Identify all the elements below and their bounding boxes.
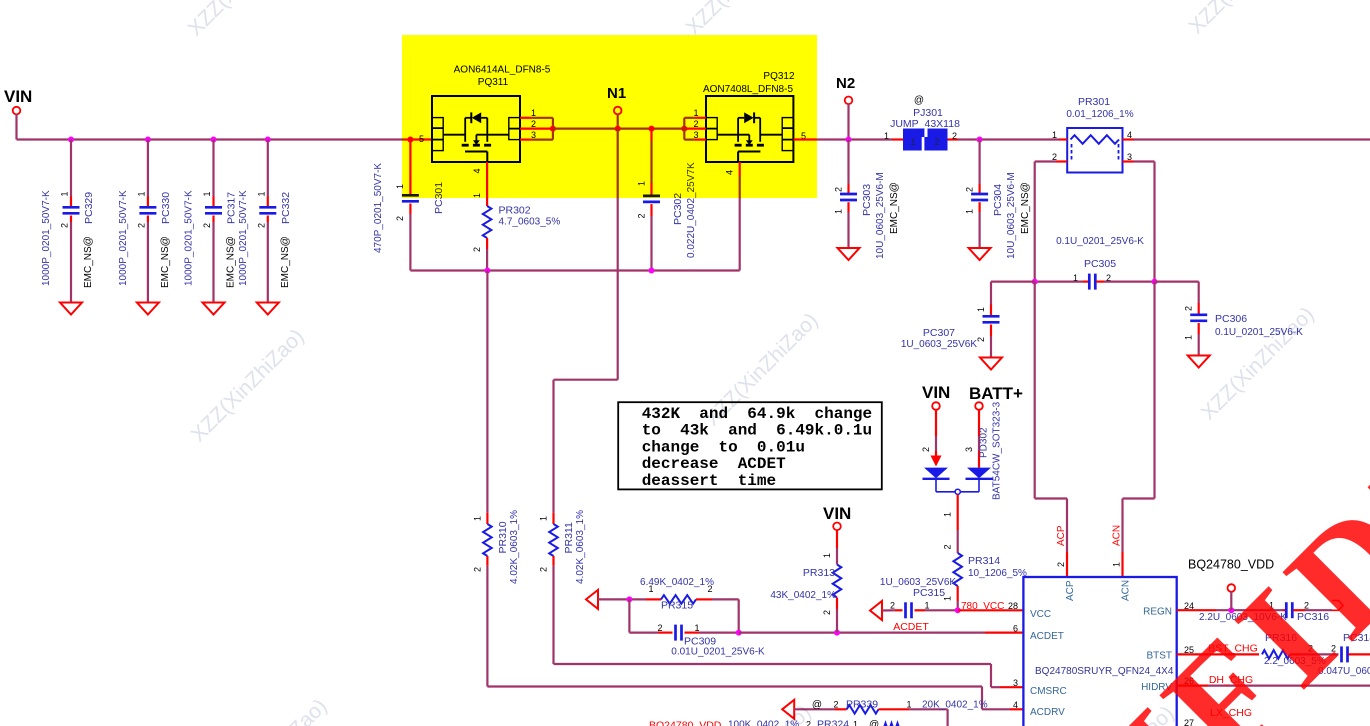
svg-text:2: 2 <box>1056 562 1066 567</box>
svg-text:0.1U_0201_25V6-K: 0.1U_0201_25V6-K <box>1215 327 1303 338</box>
svg-text:1: 1 <box>136 191 146 196</box>
svg-text:3: 3 <box>964 447 974 452</box>
svg-text:3: 3 <box>1013 678 1018 688</box>
svg-text:AON6414AL_DFN8-5: AON6414AL_DFN8-5 <box>454 65 551 76</box>
svg-text:1: 1 <box>822 553 832 558</box>
svg-text:4: 4 <box>725 170 735 175</box>
svg-text:2: 2 <box>943 544 953 549</box>
svg-text:2: 2 <box>1106 273 1111 283</box>
svg-text:1: 1 <box>1052 130 1057 140</box>
svg-text:VIN: VIN <box>922 383 950 402</box>
svg-text:432K and 64.9k change: 432K and 64.9k change <box>642 405 872 423</box>
svg-text:1000P_0201_50V7-K: 1000P_0201_50V7-K <box>41 190 52 286</box>
svg-text:PD302: PD302 <box>979 427 990 458</box>
svg-text:4: 4 <box>1127 130 1132 140</box>
svg-text:2: 2 <box>60 223 70 228</box>
svg-text:2: 2 <box>934 137 939 147</box>
svg-text:1: 1 <box>925 601 930 611</box>
svg-text:1: 1 <box>853 720 858 726</box>
svg-text:PR324: PR324 <box>817 719 849 726</box>
svg-text:PC302: PC302 <box>672 193 684 225</box>
svg-text:PC303: PC303 <box>861 184 873 216</box>
svg-text:0.01_1206_1%: 0.01_1206_1% <box>1066 109 1133 120</box>
svg-text:4.02K_0603_1%: 4.02K_0603_1% <box>509 510 520 584</box>
svg-text:5: 5 <box>419 134 424 144</box>
svg-text:2: 2 <box>965 187 975 192</box>
svg-text:470P_0201_50V7-K: 470P_0201_50V7-K <box>373 163 384 253</box>
svg-text:PC329: PC329 <box>83 192 95 224</box>
svg-text:ACN: ACN <box>1112 525 1123 546</box>
svg-text:3: 3 <box>531 130 536 140</box>
svg-text:BAT54CW_SOT323-3: BAT54CW_SOT323-3 <box>992 401 1003 500</box>
svg-text:2: 2 <box>657 623 662 633</box>
svg-text:2: 2 <box>637 213 647 218</box>
svg-text:1000P_0201_50V7-K: 1000P_0201_50V7-K <box>238 190 249 286</box>
svg-text:N2: N2 <box>836 75 855 92</box>
svg-text:1: 1 <box>965 209 975 214</box>
svg-text:4: 4 <box>1013 700 1018 710</box>
svg-text:2: 2 <box>202 223 212 228</box>
svg-text:1: 1 <box>976 307 986 312</box>
svg-text:1: 1 <box>906 700 911 710</box>
svg-text:2: 2 <box>1184 306 1194 311</box>
svg-text:780_VCC: 780_VCC <box>961 601 1004 612</box>
svg-text:PC307: PC307 <box>923 327 955 339</box>
svg-text:1: 1 <box>472 193 482 198</box>
svg-text:PR315: PR315 <box>661 600 693 612</box>
svg-text:ACDET: ACDET <box>1030 631 1064 642</box>
svg-text:1: 1 <box>1073 273 1078 283</box>
svg-text:@: @ <box>914 95 924 106</box>
svg-text:AON7408L_DFN8-5: AON7408L_DFN8-5 <box>703 84 793 95</box>
svg-text:2: 2 <box>693 119 698 129</box>
svg-text:10_1206_5%: 10_1206_5% <box>968 568 1027 579</box>
svg-text:VIN: VIN <box>823 504 851 523</box>
svg-text:1: 1 <box>943 512 953 517</box>
svg-text:2: 2 <box>976 337 986 342</box>
svg-text:change to 0.01u: change to 0.01u <box>642 438 805 456</box>
svg-text:PC332: PC332 <box>280 192 292 224</box>
svg-text:2: 2 <box>833 700 838 710</box>
svg-text:ACDRV: ACDRV <box>1030 707 1065 718</box>
svg-text:BQ24780_VDD: BQ24780_VDD <box>649 720 722 726</box>
svg-text:PR301: PR301 <box>1078 96 1110 108</box>
svg-text:4.7_0603_5%: 4.7_0603_5% <box>499 217 561 228</box>
svg-text:JUMP_43X118: JUMP_43X118 <box>890 118 960 130</box>
svg-text:PR313: PR313 <box>803 567 835 579</box>
svg-text:1: 1 <box>531 108 536 118</box>
svg-text:2: 2 <box>395 216 405 221</box>
svg-text:1: 1 <box>910 137 915 147</box>
svg-text:1000P_0201_50V7-K: 1000P_0201_50V7-K <box>184 190 195 286</box>
svg-text:to 43k and 6.49k.0.1u: to 43k and 6.49k.0.1u <box>642 422 872 440</box>
svg-text:2: 2 <box>531 119 536 129</box>
svg-text:2: 2 <box>256 223 266 228</box>
svg-text:PC330: PC330 <box>160 192 172 224</box>
svg-text:1: 1 <box>539 516 549 521</box>
svg-text:1: 1 <box>1112 562 1122 567</box>
svg-text:2: 2 <box>806 720 811 726</box>
svg-text:0.1U_0201_25V6-K: 0.1U_0201_25V6-K <box>1056 236 1144 247</box>
svg-text:PC317: PC317 <box>226 192 238 224</box>
svg-text:2: 2 <box>472 247 482 252</box>
svg-text:EMC_NS@: EMC_NS@ <box>160 236 171 288</box>
svg-text:REGN: REGN <box>1143 607 1172 618</box>
svg-text:@: @ <box>812 700 822 711</box>
svg-text:PC301: PC301 <box>433 182 445 214</box>
svg-text:2: 2 <box>822 610 832 615</box>
svg-text:deassert time: deassert time <box>642 472 776 490</box>
svg-text:EMC_NS@: EMC_NS@ <box>1020 182 1031 234</box>
svg-text:BATT+: BATT+ <box>969 384 1023 403</box>
svg-text:2: 2 <box>136 223 146 228</box>
svg-text:PR302: PR302 <box>499 205 531 217</box>
svg-text:28: 28 <box>1008 601 1018 611</box>
svg-text:CMSRC: CMSRC <box>1030 686 1067 697</box>
svg-text:0.01U_0201_25V6-K: 0.01U_0201_25V6-K <box>671 647 765 658</box>
svg-text:decrease ACDET: decrease ACDET <box>642 455 786 473</box>
svg-text:2: 2 <box>921 447 931 452</box>
svg-text:PQ311: PQ311 <box>478 77 509 88</box>
svg-text:3: 3 <box>1127 152 1132 162</box>
svg-text:1: 1 <box>473 516 483 521</box>
svg-text:EMC_NS@: EMC_NS@ <box>226 236 237 288</box>
svg-text:PQ312: PQ312 <box>763 71 795 82</box>
svg-text:PR311: PR311 <box>563 522 575 553</box>
svg-text:1: 1 <box>1184 335 1194 340</box>
svg-text:1: 1 <box>693 108 698 118</box>
svg-text:PC305: PC305 <box>1084 258 1116 270</box>
svg-text:1: 1 <box>637 181 647 186</box>
svg-text:43K_0402_1%: 43K_0402_1% <box>770 590 836 601</box>
svg-text:0.022U_0402_25V7K: 0.022U_0402_25V7K <box>686 162 697 258</box>
svg-text:2: 2 <box>952 131 957 141</box>
svg-text:ACP: ACP <box>1056 525 1067 546</box>
svg-text:4.02K_0603_1%: 4.02K_0603_1% <box>575 510 586 584</box>
svg-text:1U_0603_25V6K: 1U_0603_25V6K <box>901 339 978 350</box>
svg-text:EMC_NS@: EMC_NS@ <box>83 236 94 288</box>
svg-text:VCC: VCC <box>1030 609 1051 620</box>
svg-text:2: 2 <box>834 187 844 192</box>
svg-text:PR310: PR310 <box>497 521 509 553</box>
svg-text:PR339: PR339 <box>846 699 878 711</box>
svg-text:EMC_NS@: EMC_NS@ <box>889 182 900 234</box>
svg-text:@: @ <box>869 720 879 726</box>
svg-text:PC304: PC304 <box>992 184 1004 216</box>
svg-text:PC315: PC315 <box>913 587 945 599</box>
svg-text:EMC_NS@: EMC_NS@ <box>280 236 291 288</box>
svg-text:1: 1 <box>695 623 700 633</box>
svg-text:1: 1 <box>202 191 212 196</box>
svg-text:100K_0402_1%: 100K_0402_1% <box>728 720 799 726</box>
svg-text:1: 1 <box>60 191 70 196</box>
svg-text:PR314: PR314 <box>968 555 1000 567</box>
svg-text:2: 2 <box>539 567 549 572</box>
svg-text:6.49K_0402_1%: 6.49K_0402_1% <box>640 577 714 588</box>
svg-text:10U_0603_25V6-M: 10U_0603_25V6-M <box>875 172 886 259</box>
svg-text:ACP: ACP <box>1065 580 1076 601</box>
svg-text:ACDET: ACDET <box>893 621 929 633</box>
svg-text:10U_0603_25V6-M: 10U_0603_25V6-M <box>1006 172 1017 259</box>
svg-text:3: 3 <box>693 130 698 140</box>
svg-text:N1: N1 <box>607 85 626 102</box>
svg-text:4: 4 <box>472 168 482 173</box>
svg-text:6: 6 <box>1013 624 1018 634</box>
svg-text:ACN: ACN <box>1121 580 1132 601</box>
svg-text:1000P_0201_50V7-K: 1000P_0201_50V7-K <box>118 190 129 286</box>
svg-text:1: 1 <box>834 209 844 214</box>
svg-text:1: 1 <box>395 184 405 189</box>
svg-text:VIN: VIN <box>4 87 32 106</box>
svg-text:1: 1 <box>884 131 889 141</box>
svg-text:2: 2 <box>473 567 483 572</box>
svg-text:1: 1 <box>256 191 266 196</box>
svg-text:PC306: PC306 <box>1215 313 1247 325</box>
svg-text:20K_0402_1%: 20K_0402_1% <box>922 700 988 711</box>
svg-text:2: 2 <box>890 601 895 611</box>
